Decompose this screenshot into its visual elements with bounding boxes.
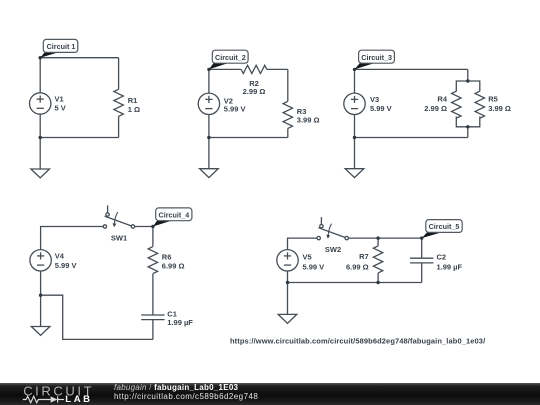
resistor R7 <box>373 246 382 273</box>
node C5 R7 bottom junction <box>376 281 379 284</box>
voltage source V4 <box>30 250 51 271</box>
wire top C1 <box>40 57 118 59</box>
wire V3 bottom <box>354 115 356 138</box>
voltage source V1 <box>30 93 51 114</box>
node C1 bottom junction <box>39 136 42 139</box>
wire to ground C2 <box>208 138 210 169</box>
circuitlab logo <box>0 383 110 405</box>
svg-text:SW2: SW2 <box>325 245 341 254</box>
wire V2 top <box>208 69 210 93</box>
svg-text:3.99 Ω: 3.99 Ω <box>488 104 511 113</box>
svg-text:SW1: SW1 <box>111 233 127 242</box>
wire bottom C1 <box>40 137 118 139</box>
svg-text:1.99 µF: 1.99 µF <box>437 263 463 272</box>
wire bottom C2 <box>209 137 288 139</box>
ground C4 <box>31 327 50 336</box>
wire R7 bottom <box>377 273 379 283</box>
wire right-down C1 <box>118 58 120 90</box>
wire V4 bottom <box>40 271 42 295</box>
wire to ground C5 <box>287 283 289 315</box>
ground C1 <box>31 169 50 178</box>
svg-text:V4: V4 <box>55 252 65 261</box>
wire bottom C4 <box>41 295 153 339</box>
wire SW2 to R7 <box>348 237 378 239</box>
svg-text:3.99 Ω: 3.99 Ω <box>297 116 320 125</box>
ground C5 <box>278 314 297 323</box>
ground C3 <box>345 169 364 178</box>
svg-text:R6: R6 <box>162 252 172 261</box>
voltage source V5 <box>277 250 298 271</box>
wire C2cap top stub <box>421 238 423 258</box>
wire right-down C2 <box>287 69 289 101</box>
svg-text:V3: V3 <box>370 95 379 104</box>
resistor R2 <box>241 65 267 73</box>
capacitor C2 <box>410 258 433 263</box>
wire down to parallel C3 <box>467 69 469 81</box>
svg-text:6.99 Ω: 6.99 Ω <box>346 263 369 272</box>
wire top-left C4 <box>41 227 104 250</box>
label flag Circuit_2 <box>209 50 248 69</box>
footer bar <box>0 383 540 405</box>
svg-text:5.99 V: 5.99 V <box>303 263 325 272</box>
svg-text:Circuit_3: Circuit_3 <box>361 53 392 62</box>
svg-text:R5: R5 <box>488 95 498 104</box>
svg-text:5.99 V: 5.99 V <box>370 104 392 113</box>
svg-text:Circuit_5: Circuit_5 <box>429 222 460 231</box>
wire top-left C5 <box>288 238 318 250</box>
svg-text:Circuit 1: Circuit 1 <box>47 42 76 51</box>
svg-text:2.99 Ω: 2.99 Ω <box>243 87 266 96</box>
resistor R6 <box>148 247 157 274</box>
wire R6 top <box>152 227 154 247</box>
wire bottom C5 <box>288 282 422 284</box>
wire R6 to C1cap <box>152 274 154 315</box>
wire R3 bottom <box>287 128 289 137</box>
svg-text:R1: R1 <box>128 96 138 105</box>
svg-text:https://www.circuitlab.com/cir: https://www.circuitlab.com/circuit/589b6… <box>230 336 486 345</box>
voltage source V2 <box>198 93 219 114</box>
svg-text:5.99 V: 5.99 V <box>55 261 77 270</box>
wire to ground C1 <box>39 138 41 170</box>
resistor R5 <box>475 91 484 118</box>
node C3 parallel bottom junction <box>466 125 469 128</box>
wire top C3 <box>355 68 468 70</box>
node C3 parallel top junction <box>466 79 469 82</box>
node C4 V4 bottom junction <box>39 294 42 297</box>
svg-text:C2: C2 <box>437 253 447 262</box>
label flag Circuit_3 <box>355 50 395 69</box>
wire C1cap bottom <box>152 320 154 340</box>
wire C2cap bottom <box>421 263 423 283</box>
wire bottom C3 <box>355 137 468 139</box>
svg-text:5.99 V: 5.99 V <box>224 105 246 114</box>
wire top-left C2 <box>209 68 241 70</box>
svg-text:R7: R7 <box>359 252 369 261</box>
wire R7 top <box>377 238 379 246</box>
wire V1 top <box>39 58 41 93</box>
ground C2 <box>200 169 219 178</box>
wire V5 bottom <box>287 271 289 283</box>
svg-text:Circuit_4: Circuit_4 <box>159 211 190 220</box>
svg-text:1 Ω: 1 Ω <box>128 105 140 114</box>
node C5 V5 bottom junction <box>286 281 289 284</box>
label flag Circuit_5 <box>422 220 462 239</box>
svg-text:6.99 Ω: 6.99 Ω <box>162 262 185 271</box>
label flag Circuit 1 <box>40 39 78 57</box>
svg-text:2.99 Ω: 2.99 Ω <box>424 104 447 113</box>
wire V2 bottom <box>208 115 210 138</box>
svg-text:5 V: 5 V <box>55 103 66 112</box>
voltage source V3 <box>344 93 365 114</box>
wire SW1 to R6 <box>135 226 153 228</box>
label flag Circuit_4 <box>153 208 192 227</box>
node C5 C2 top junction <box>420 236 423 239</box>
node C2 top <box>207 68 210 71</box>
resistor R1 <box>114 89 123 116</box>
wire parallel bottom bar <box>456 117 480 127</box>
wire R1 bottom <box>118 116 120 137</box>
node C1 top <box>39 56 42 59</box>
wire V3 top <box>354 69 356 93</box>
switch SW1 <box>103 205 134 228</box>
node C3 bottom <box>353 136 356 139</box>
svg-text:V5: V5 <box>303 253 312 262</box>
switch SW2 <box>317 217 348 240</box>
wire to ground C4 <box>40 295 42 326</box>
wire R7 to C2cap top <box>378 237 422 239</box>
node C4 SW1-R6 junction <box>151 225 154 228</box>
wire parallel down C3 <box>467 127 469 138</box>
wire to ground C3 <box>354 138 356 169</box>
resistor R3 <box>283 101 292 128</box>
node C2 bottom junction <box>207 136 210 139</box>
node C3 top <box>353 68 356 71</box>
wire top-right C2 <box>267 68 288 70</box>
capacitor C1 <box>141 315 164 320</box>
resistor R4 <box>452 91 461 118</box>
wire parallel top bar <box>456 81 480 92</box>
svg-text:Circuit_2: Circuit_2 <box>215 53 246 62</box>
svg-text:R4: R4 <box>437 95 447 104</box>
svg-text:1.99 µF: 1.99 µF <box>167 318 193 327</box>
svg-text:V1: V1 <box>55 95 64 104</box>
svg-text:LAB: LAB <box>65 394 92 405</box>
wire V1 bottom <box>39 114 41 137</box>
node C5 R7 top junction <box>376 236 379 239</box>
